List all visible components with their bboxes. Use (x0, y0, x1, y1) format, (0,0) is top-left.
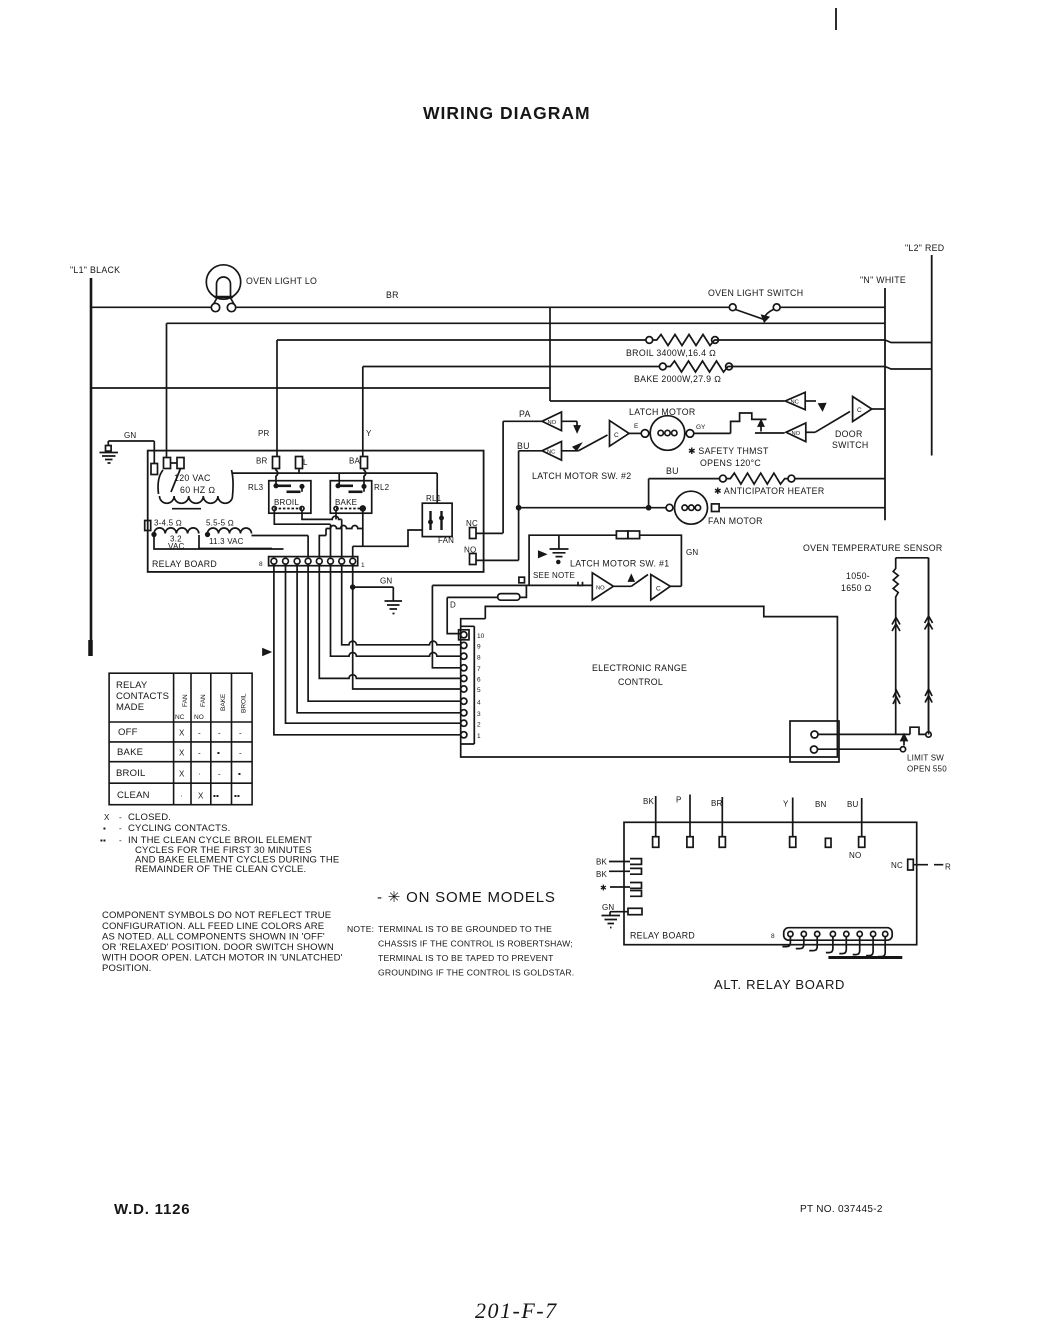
connector C triangle latch motor (610, 421, 642, 447)
svg-text:3: 3 (477, 711, 481, 718)
svg-text:OVEN LIGHT SWITCH: OVEN LIGHT SWITCH (708, 288, 803, 298)
connector C triangle sw1 (651, 575, 682, 601)
connector BU NC triangle (517, 441, 579, 560)
svg-text:COMPONENT SYMBOLS DO NOT REFLE: COMPONENT SYMBOLS DO NOT REFLECT TRUE (102, 910, 331, 921)
svg-text:CYCLING CONTACTS.: CYCLING CONTACTS. (128, 823, 230, 834)
svg-text:-: - (119, 813, 122, 822)
switch oven light (729, 304, 885, 322)
svg-text:NOTE:: NOTE: (347, 924, 374, 934)
svg-text:BU: BU (847, 800, 859, 809)
svg-text:60 HZ Ω: 60 HZ Ω (180, 485, 215, 495)
svg-text:BR: BR (711, 799, 723, 808)
coil secondary 11.3 VAC (206, 519, 252, 547)
svg-text:L: L (303, 458, 308, 467)
coil secondary 3.2 VAC (152, 519, 199, 552)
resistor bake element (363, 361, 932, 457)
svg-text:120 VAC: 120 VAC (174, 473, 211, 483)
svg-text:NO: NO (849, 851, 861, 860)
wire BR pin to RL3 with hop (276, 469, 278, 486)
lamp oven light LO (206, 265, 240, 312)
pin Y alt top (783, 798, 796, 848)
svg-text:7: 7 (477, 666, 481, 673)
wire N vertical (884, 288, 886, 520)
svg-text:1: 1 (361, 562, 365, 569)
svg-text:BR: BR (256, 457, 268, 466)
wire row2 to N (167, 323, 886, 458)
svg-text:WIRING DIAGRAM: WIRING DIAGRAM (423, 103, 591, 123)
svg-text:GN: GN (124, 431, 136, 440)
svg-text:ALT. RELAY BOARD: ALT. RELAY BOARD (714, 977, 845, 992)
connector NC triangle (safety circuit) (785, 392, 825, 410)
marker arrow on some models (pin1 wire) (263, 649, 270, 655)
svg-text:-: - (218, 770, 221, 779)
switch latch motor sw2 blade (574, 435, 608, 451)
svg-text:GY: GY (696, 424, 706, 431)
ground GN below terminal strip (351, 577, 402, 614)
svg-text:9: 9 (477, 644, 481, 651)
svg-text:✱ ANTICIPATOR HEATER: ✱ ANTICIPATOR HEATER (714, 486, 824, 496)
svg-text:-: - (119, 824, 122, 833)
wire pin7 feed (432, 585, 460, 667)
wire terminal5 to ERC pin4 (308, 564, 460, 701)
svg-text:NC: NC (547, 450, 555, 456)
svg-text:8: 8 (771, 933, 775, 940)
relay RL2 (330, 481, 389, 514)
resistor pin10 feed (447, 585, 526, 633)
svg-text:BROIL 3400W,16.4 Ω: BROIL 3400W,16.4 Ω (626, 348, 716, 358)
svg-text:BU: BU (666, 466, 679, 476)
svg-text:BR: BR (386, 290, 399, 300)
svg-text:FAN MOTOR: FAN MOTOR (708, 516, 763, 526)
svg-text:LIMIT SW: LIMIT SW (907, 754, 944, 763)
svg-text:10: 10 (477, 633, 485, 640)
svg-text:2: 2 (477, 722, 481, 729)
svg-text:201-F-7: 201-F-7 (475, 1298, 558, 1323)
svg-text:▪: ▪ (217, 749, 220, 758)
svg-text:GN: GN (686, 548, 698, 557)
svg-text:X: X (179, 770, 185, 779)
thermostat safety (staircase) (694, 413, 785, 433)
svg-text:-: - (198, 749, 201, 758)
switch sw1 blade (629, 575, 648, 587)
wire terminal3 to ERC pin8 with hops (331, 564, 461, 656)
switch door C triangle (853, 397, 885, 422)
svg-text:BAKE: BAKE (117, 747, 143, 758)
connector NO triangle sw1 (592, 573, 631, 600)
svg-text:4: 4 (477, 700, 481, 707)
svg-text:RL3: RL3 (248, 483, 264, 492)
svg-text:"L1" BLACK: "L1" BLACK (70, 265, 120, 275)
svg-text:1: 1 (477, 733, 481, 740)
pin BR alt top (711, 797, 725, 847)
ground inside sw1 box (550, 535, 569, 563)
svg-text:✱: ✱ (600, 884, 607, 893)
wire L1 bus vertical (90, 278, 93, 655)
svg-text:3-4.5 Ω: 3-4.5 Ω (154, 519, 182, 528)
svg-text:"L2" RED: "L2" RED (905, 243, 944, 253)
svg-text:▪▪: ▪▪ (213, 792, 219, 801)
svg-text:▪▪: ▪▪ (100, 836, 106, 845)
svg-text:- ✳ ON SOME MODELS: - ✳ ON SOME MODELS (377, 889, 556, 906)
connector alt board bottom (784, 928, 893, 941)
svg-text:REMAINDER OF THE CLEAN CYCLE.: REMAINDER OF THE CLEAN CYCLE. (135, 864, 306, 875)
svg-text:CHASSIS IF THE CONTROL IS ROBE: CHASSIS IF THE CONTROL IS ROBERTSHAW; (378, 939, 573, 949)
wire RL2 coil leads to strip (319, 511, 363, 557)
svg-text:R: R (945, 863, 951, 872)
pin BA (361, 457, 368, 469)
svg-text:8: 8 (259, 561, 263, 568)
svg-text:5: 5 (477, 687, 481, 694)
svg-text:OPENS 120°C: OPENS 120°C (700, 458, 761, 468)
svg-text:C: C (857, 407, 862, 414)
wires alt connector hooks (782, 937, 885, 957)
svg-text:11.3 VAC: 11.3 VAC (209, 537, 244, 546)
svg-text:BU: BU (517, 441, 530, 451)
svg-text:C: C (614, 432, 619, 439)
svg-text:BK: BK (596, 858, 608, 867)
pin BK alt top (643, 796, 659, 847)
ground GN left of relay board (100, 431, 155, 464)
terminal strip relay board (269, 557, 358, 566)
svg-text:BK: BK (596, 870, 608, 879)
svg-text:OPEN 550: OPEN 550 (907, 765, 947, 774)
svg-text:NO: NO (194, 714, 204, 721)
pin on relay board left edge (145, 521, 151, 531)
wire row5 from L1 bus (91, 307, 785, 401)
connector pin pair 120VAC (164, 458, 185, 493)
pin D on sw1 left (519, 577, 525, 583)
svg-text:BROIL: BROIL (116, 768, 146, 779)
svg-text:TERMINAL IS TO BE TAPED TO PRE: TERMINAL IS TO BE TAPED TO PREVENT (378, 953, 554, 963)
box alt relay board (624, 822, 917, 944)
svg-text:GROUNDING IF THE CONTROL IS GO: GROUNDING IF THE CONTROL IS GOLDSTAR. (378, 968, 574, 978)
svg-text:X: X (179, 749, 185, 758)
svg-text:BAKE: BAKE (335, 498, 357, 507)
legend table (100, 812, 339, 875)
svg-text:LATCH MOTOR SW. #2: LATCH MOTOR SW. #2 (532, 471, 631, 481)
svg-text:8: 8 (477, 655, 481, 662)
svg-text:GN: GN (602, 903, 614, 912)
wire terminal1 to ERC pin5 (353, 564, 461, 689)
svg-text:MADE: MADE (116, 702, 144, 713)
box electronic range control (461, 606, 838, 757)
svg-text:BA: BA (349, 457, 361, 466)
svg-text:PT NO. 037445-2: PT NO. 037445-2 (800, 1204, 883, 1215)
svg-text:✱ SAFETY THMST: ✱ SAFETY THMST (688, 446, 769, 456)
svg-text:NO: NO (596, 586, 605, 592)
switch limit (818, 558, 932, 752)
svg-text:RELAY: RELAY (116, 680, 148, 691)
svg-text:▪: ▪ (238, 770, 241, 779)
pin NC of RL1 (466, 519, 503, 539)
wire 3.2VAC to terminals (154, 535, 284, 549)
pin BK1 alt left (596, 858, 642, 867)
relay board main outline (148, 451, 484, 572)
svg-text:-: - (198, 729, 201, 738)
svg-text:W.D. 1126: W.D. 1126 (114, 1201, 190, 1218)
wire L2 vertical (931, 255, 933, 456)
svg-text:LATCH MOTOR: LATCH MOTOR (629, 407, 696, 417)
svg-text:RL1: RL1 (426, 494, 442, 503)
table rows text (116, 727, 242, 801)
svg-text:OVEN LIGHT LO: OVEN LIGHT LO (246, 276, 317, 286)
wire terminal7 to ERC pin2 (286, 564, 461, 723)
svg-text:NO: NO (792, 431, 801, 437)
switch door blade (815, 412, 850, 433)
svg-text:SEE NOTE: SEE NOTE (533, 571, 575, 580)
bus bar alt board bottom (828, 956, 902, 959)
relay RL3 (248, 481, 311, 514)
pin BR (273, 457, 280, 469)
motor latch (000) (634, 416, 706, 451)
svg-text:BAKE: BAKE (220, 693, 227, 711)
wire 11.3VAC to terminal (252, 536, 309, 557)
box ERC output terminals (790, 721, 839, 762)
svg-text:RL2: RL2 (374, 483, 390, 492)
pin GN alt left with ground (602, 903, 643, 928)
box latch motor sw1 (529, 531, 681, 586)
svg-text:NC: NC (891, 861, 903, 870)
pin P alt top (676, 795, 693, 848)
svg-text:BK: BK (643, 797, 655, 806)
marker arrow on some models (sw1) (539, 552, 546, 558)
pin L (296, 457, 303, 469)
relay RL1 (422, 473, 454, 545)
wire sw1 input (432, 584, 592, 586)
wire RL3 coil leads to strip (274, 511, 341, 557)
svg-text:Y: Y (366, 429, 372, 438)
table header text (116, 680, 248, 721)
svg-text:1650 Ω: 1650 Ω (841, 583, 872, 593)
svg-text:-: - (119, 836, 122, 845)
note text left (102, 910, 343, 974)
svg-text:X: X (198, 792, 204, 801)
svg-text:OVEN TEMPERATURE SENSOR: OVEN TEMPERATURE SENSOR (803, 543, 943, 553)
svg-text:"N" WHITE: "N" WHITE (860, 275, 906, 285)
wire RL1 coil to terminal 1 (353, 530, 423, 557)
svg-text:P: P (676, 796, 682, 805)
motor fan (000) (517, 491, 885, 524)
wire terminal6 to ERC pin3 (297, 564, 460, 713)
svg-text:BN: BN (815, 800, 827, 809)
svg-text:CLEAN: CLEAN (117, 790, 150, 801)
pin BU alt top (847, 798, 865, 860)
svg-text:X: X (104, 813, 110, 822)
pin GN on relay board edge (151, 464, 158, 475)
svg-text:E: E (634, 423, 639, 430)
wire terminal2 to ERC pin9 with hops (342, 564, 461, 645)
svg-text:-: - (239, 729, 242, 738)
svg-text:BROIL: BROIL (241, 693, 248, 713)
svg-text:RELAY BOARD: RELAY BOARD (630, 931, 695, 941)
resistor broil element (277, 335, 932, 458)
svg-text:Y: Y (783, 800, 789, 809)
wire terminal8 to ERC pin1 (274, 564, 460, 735)
pin BN alt top (open) (815, 800, 831, 847)
svg-text:SWITCH: SWITCH (832, 440, 869, 450)
svg-text:DOOR: DOOR (835, 429, 863, 439)
svg-text:-: - (218, 729, 221, 738)
connector PA NO triangle (503, 409, 580, 533)
svg-text:FAN: FAN (200, 694, 207, 707)
wire BA pin to RL2 with hop (364, 469, 366, 486)
svg-text:5.5-5 Ω: 5.5-5 Ω (206, 519, 234, 528)
svg-text:C: C (656, 586, 661, 593)
svg-text:ELECTRONIC RANGE: ELECTRONIC RANGE (592, 663, 687, 673)
pin NO of RL1 (464, 546, 519, 565)
svg-text:TERMINAL IS TO BE GROUNDED TO: TERMINAL IS TO BE GROUNDED TO THE (378, 924, 552, 934)
svg-text:NC: NC (791, 400, 799, 406)
svg-text:CONTACTS: CONTACTS (116, 691, 169, 702)
pin BK2 alt left (596, 868, 642, 879)
svg-text:CONTROL: CONTROL (618, 677, 663, 687)
pin star alt left (600, 883, 642, 897)
svg-text:AS NOTED. ALL COMPONENTS SHOWN: AS NOTED. ALL COMPONENTS SHOWN IN 'OFF' (102, 932, 325, 943)
svg-text:OFF: OFF (118, 727, 138, 738)
table relay contacts (109, 673, 252, 805)
svg-text:NO: NO (548, 420, 557, 426)
svg-text:6: 6 (477, 677, 481, 684)
svg-text:BAKE 2000W,27.9 Ω: BAKE 2000W,27.9 Ω (634, 374, 721, 384)
resistor anticipator heater (649, 473, 885, 508)
svg-text:FAN: FAN (182, 694, 189, 707)
svg-text:·: · (180, 792, 183, 801)
svg-text:RELAY BOARD: RELAY BOARD (152, 559, 217, 569)
pin tick on sw1 input wire (578, 582, 583, 586)
connector NO triangle door switch (786, 423, 815, 442)
svg-text:WITH DOOR OPEN. LATCH MOTOR IN: WITH DOOR OPEN. LATCH MOTOR IN 'UNLATCHE… (102, 953, 343, 964)
wire terminal4 to ERC pin6 with hop (319, 564, 460, 678)
note text right (347, 924, 574, 978)
junction arrows sensor left (892, 618, 900, 705)
svg-text:CONFIGURATION. ALL FEED LINE C: CONFIGURATION. ALL FEED LINE COLORS ARE (102, 921, 324, 932)
wire L bus inside board (232, 469, 438, 487)
svg-text:▪: ▪ (103, 824, 106, 833)
connector ERC 10-pin (459, 626, 475, 744)
svg-text:FAN: FAN (438, 536, 454, 545)
svg-text:LATCH MOTOR SW. #1: LATCH MOTOR SW. #1 (570, 559, 669, 569)
svg-text:POSITION.: POSITION. (102, 963, 151, 974)
svg-text:BROIL: BROIL (274, 498, 299, 507)
sensor oven temperature loop (893, 558, 928, 735)
svg-text:PA: PA (519, 409, 531, 419)
wire ERC to sensor (818, 733, 910, 735)
svg-text:X: X (179, 729, 185, 738)
svg-text:PR: PR (258, 429, 270, 438)
svg-text:D: D (450, 601, 456, 610)
transformer primary 120VAC (158, 470, 233, 509)
svg-text:·: · (198, 770, 201, 779)
svg-text:GN: GN (380, 577, 392, 586)
svg-text:OR 'RELAXED' POSITION. DOOR SW: OR 'RELAXED' POSITION. DOOR SWITCH SHOWN (102, 942, 334, 953)
svg-text:NC: NC (175, 714, 185, 721)
svg-text:▪▪: ▪▪ (234, 792, 240, 801)
svg-text:-: - (239, 749, 242, 758)
registration tick mark top (835, 8, 837, 30)
svg-text:1050-: 1050- (846, 571, 870, 581)
junction arrows sensor right (925, 616, 933, 703)
pin NC alt right (891, 859, 951, 871)
labels ERC pin numbers (477, 633, 485, 740)
wire oven light feed (91, 306, 729, 308)
svg-text:CLOSED.: CLOSED. (128, 812, 171, 823)
